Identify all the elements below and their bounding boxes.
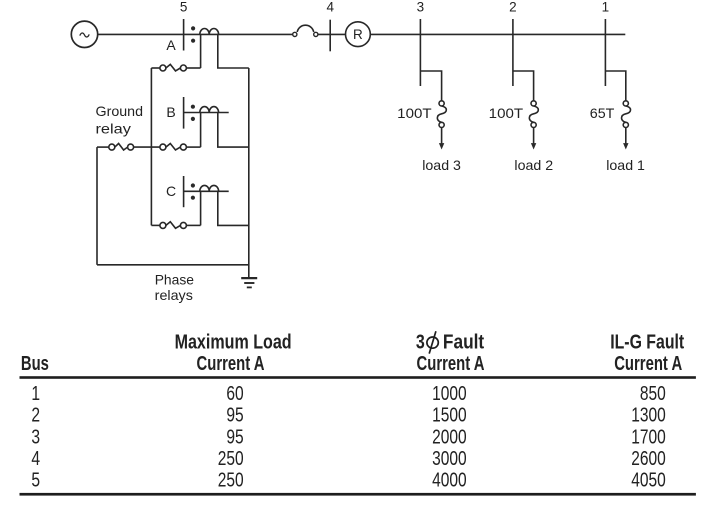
svg-text:850: 850: [640, 382, 666, 405]
bus 1 feeder line: [604, 19, 606, 86]
wire: row A left corner to relay A: [151, 67, 159, 69]
svg-text:5: 5: [180, 0, 188, 15]
svg-text:4000: 4000: [432, 469, 467, 492]
disconnect switch (open blade with two terminals): [293, 32, 297, 36]
wire: feeder 3 jog: [420, 71, 441, 101]
wire: CT A secondary left (down): [200, 34, 202, 68]
svg-text:60: 60: [226, 382, 243, 405]
tilde inside source: [80, 33, 89, 37]
wire: CT B secondary left (down): [200, 113, 202, 148]
svg-text:C: C: [166, 183, 176, 199]
CT C tick: [183, 176, 185, 207]
wire: CT A secondary right (down and to right rail): [218, 34, 249, 68]
CT C winding bumps: [200, 185, 219, 191]
wire: switch to breaker R: [318, 33, 346, 35]
svg-text:2600: 2600: [631, 447, 666, 470]
table: fault current data: [20, 331, 696, 496]
wire: source to switch (main bus, passes bus 5 and CT A): [98, 33, 293, 35]
svg-text:1000: 1000: [432, 382, 467, 405]
svg-text:1: 1: [602, 0, 610, 15]
wire: fuse to load 3 arrow: [441, 128, 443, 145]
svg-text:3000: 3000: [432, 447, 467, 470]
svg-text:4: 4: [326, 0, 334, 15]
svg-text:4: 4: [31, 447, 40, 470]
svg-text:2: 2: [31, 404, 40, 427]
wire: breaker R to end of feeder bus: [370, 33, 625, 35]
svg-text:3: 3: [416, 331, 425, 354]
svg-text:100T: 100T: [489, 105, 524, 121]
wire: relay A to CT A secondary: [186, 67, 200, 69]
ground: [241, 277, 257, 279]
CT B tick: [183, 97, 185, 129]
svg-text:Ground: Ground: [96, 103, 144, 119]
bus 4 tick: [329, 20, 331, 52]
svg-text:B: B: [166, 104, 175, 120]
svg-text:Fault: Fault: [443, 331, 484, 354]
svg-text:load 1: load 1: [606, 157, 645, 173]
svg-text:Current A: Current A: [197, 352, 265, 375]
ground relay (circle-zigzag-circle): [109, 144, 115, 150]
wire: ground relay to phase relay B: [134, 146, 160, 148]
svg-text:1: 1: [31, 382, 40, 405]
phase relay C (circle-zigzag-circle): [160, 222, 166, 228]
svg-text:2: 2: [509, 0, 517, 15]
source G1 (AC generator circle): [71, 21, 97, 47]
svg-text:1300: 1300: [631, 404, 666, 427]
rule under header: [20, 376, 696, 379]
fuse 65T feeder 1: [623, 101, 628, 106]
left outer rail: [96, 147, 98, 265]
bus 2 feeder line: [512, 19, 514, 86]
svg-text:3: 3: [417, 0, 425, 15]
svg-text:5: 5: [31, 469, 40, 492]
svg-text:1700: 1700: [631, 425, 666, 448]
svg-text:R: R: [353, 27, 363, 42]
wire: CT C secondary right (down and to right rail): [218, 191, 249, 225]
fuse 100T feeder 3: [439, 101, 444, 106]
wire: CT B secondary right (down and to right rail): [218, 113, 249, 148]
wire: feeder 2 jog: [513, 71, 534, 101]
wire: fuse to load 2 arrow: [533, 128, 535, 145]
CT B primary line: [184, 112, 229, 114]
svg-text:load 2: load 2: [514, 157, 553, 173]
wire: relay C to CT C secondary: [186, 224, 200, 226]
svg-text:relay: relay: [96, 121, 131, 137]
CT A polarity dots: [191, 26, 195, 30]
svg-text:load 3: load 3: [422, 157, 461, 173]
rule bottom of table: [20, 493, 696, 496]
left inner rail: [150, 68, 152, 225]
bus 5 tick: [183, 19, 185, 51]
svg-text:relays: relays: [155, 287, 193, 303]
svg-text:2000: 2000: [432, 425, 467, 448]
right rail: [248, 68, 250, 278]
CT C primary line: [184, 190, 229, 192]
svg-text:IL-G Fault: IL-G Fault: [610, 331, 684, 354]
svg-text:Current A: Current A: [417, 352, 485, 375]
recloser R: [346, 22, 371, 47]
svg-text:95: 95: [226, 425, 243, 448]
CT C polarity dots: [191, 183, 195, 187]
svg-text:Current A: Current A: [614, 352, 682, 375]
wire: left outer rail to ground relay: [97, 146, 109, 148]
svg-text:Bus: Bus: [21, 352, 49, 375]
wire: relay B to CT B secondary: [186, 146, 200, 148]
svg-text:4050: 4050: [631, 469, 666, 492]
wire: fuse to load 1 arrow: [625, 128, 627, 145]
bus 3 feeder line: [419, 19, 421, 86]
CT B winding bumps: [200, 107, 219, 113]
svg-text:95: 95: [226, 404, 243, 427]
svg-text:1500: 1500: [432, 404, 467, 427]
wire: CT C secondary left (down): [200, 191, 202, 225]
svg-text:250: 250: [218, 469, 244, 492]
phase relay B (circle-zigzag-circle): [160, 144, 166, 150]
wire: bottom return: [97, 264, 249, 266]
phi symbol (3-phase): [427, 331, 438, 353]
svg-text:Phase: Phase: [155, 271, 195, 287]
svg-text:65T: 65T: [590, 105, 615, 121]
wire: feeder 1 jog: [605, 71, 625, 101]
phase relay A (circle-zigzag-circle): [160, 65, 166, 71]
svg-text:Maximum Load: Maximum Load: [175, 331, 292, 354]
svg-text:3: 3: [31, 425, 40, 448]
CT A winding bumps: [200, 29, 219, 35]
svg-text:A: A: [166, 37, 176, 53]
fuse 100T feeder 2: [531, 101, 536, 106]
CT B polarity dots: [191, 105, 195, 109]
svg-text:250: 250: [218, 447, 244, 470]
wire: left inner rail corner to relay C: [151, 224, 160, 226]
svg-text:100T: 100T: [397, 105, 432, 121]
